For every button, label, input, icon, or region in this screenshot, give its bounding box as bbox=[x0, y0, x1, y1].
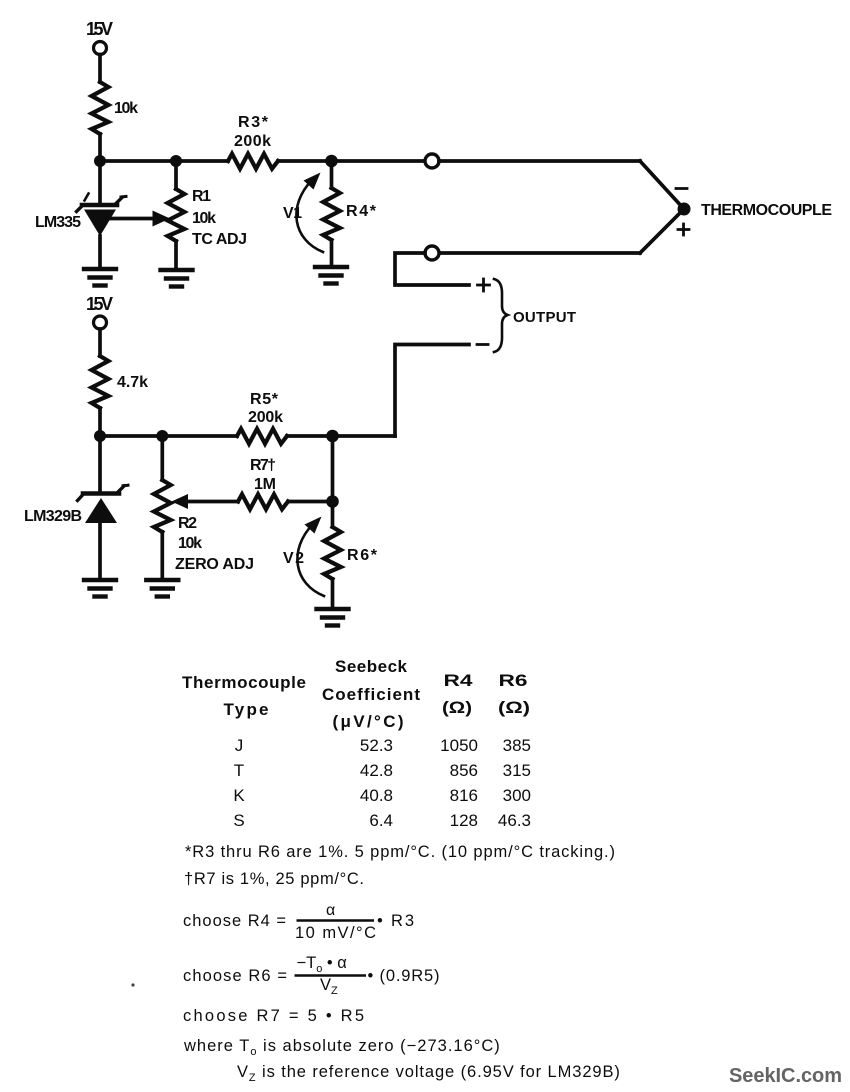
wire (top rail) bbox=[100, 159, 228, 163]
terminal (thermocouple plus lead) bbox=[425, 246, 439, 260]
resistor R4 bbox=[323, 161, 377, 265]
svg-text:10k: 10k bbox=[114, 100, 138, 117]
wire (node to R7 node) bbox=[331, 436, 335, 502]
svg-text:VZ is the reference voltage (6: VZ is the reference voltage (6.95V for L… bbox=[237, 1063, 621, 1084]
svg-text:R2: R2 bbox=[178, 515, 197, 532]
svg-text:Thermocouple: Thermocouple bbox=[182, 673, 306, 692]
svg-text:(Ω): (Ω) bbox=[498, 698, 530, 717]
svg-text:4.7k: 4.7k bbox=[117, 374, 148, 391]
ground (LM335) bbox=[84, 269, 116, 286]
wire (lower rail) bbox=[100, 434, 237, 438]
wire bbox=[439, 251, 640, 255]
svg-text:S: S bbox=[233, 811, 244, 830]
ground (R2) bbox=[146, 580, 178, 597]
output brace and label bbox=[494, 279, 576, 352]
svg-text:856: 856 bbox=[450, 761, 478, 780]
V1 annotation bbox=[283, 173, 323, 253]
svg-text:where To is absolute zero (−27: where To is absolute zero (−273.16°C) bbox=[183, 1037, 501, 1058]
stray mark bbox=[131, 983, 134, 986]
potentiometer R1 10k TC ADJ bbox=[168, 161, 247, 267]
wire bbox=[98, 329, 102, 356]
table row J bbox=[235, 736, 531, 755]
svg-text:200k: 200k bbox=[248, 409, 283, 426]
svg-text:†R7 is 1%, 25 ppm/°C.: †R7 is 1%, 25 ppm/°C. bbox=[184, 870, 364, 888]
ground (R1) bbox=[161, 270, 193, 287]
svg-text:Coefficient: Coefficient bbox=[322, 685, 420, 704]
svg-text:K: K bbox=[233, 786, 245, 805]
node (R1 top) bbox=[170, 155, 182, 167]
thermocouple junction bbox=[676, 189, 832, 236]
svg-text:(μV/°C): (μV/°C) bbox=[333, 712, 404, 731]
svg-text:46.3: 46.3 bbox=[498, 811, 531, 830]
svg-text:R7†: R7† bbox=[250, 457, 276, 474]
svg-text:15V: 15V bbox=[86, 294, 113, 314]
svg-text:42.8: 42.8 bbox=[360, 761, 393, 780]
table row S bbox=[233, 811, 531, 830]
svg-text:R5*: R5* bbox=[250, 391, 279, 408]
node (R5 / R6 junction) bbox=[326, 430, 339, 443]
svg-text:choose R4 =: choose R4 = bbox=[183, 912, 286, 930]
diode LM329B bbox=[24, 436, 128, 578]
svg-text:52.3: 52.3 bbox=[360, 736, 393, 755]
svg-text:V1: V1 bbox=[283, 205, 302, 222]
svg-text:THERMOCOUPLE: THERMOCOUPLE bbox=[701, 202, 832, 219]
ground (R4) bbox=[315, 267, 347, 284]
formula: choose R4 bbox=[183, 902, 414, 942]
svg-text:Seebeck: Seebeck bbox=[335, 657, 408, 676]
svg-text:*R3 thru R6 are 1%. 5 ppm/°C.: *R3 thru R6 are 1%. 5 ppm/°C. (10 ppm/°C… bbox=[185, 843, 615, 861]
svg-text:TC ADJ: TC ADJ bbox=[192, 231, 247, 248]
node (R2 top) bbox=[156, 430, 168, 442]
svg-text:α: α bbox=[326, 902, 335, 919]
node (4.7k / LM329B) bbox=[94, 430, 106, 442]
svg-text:1050: 1050 bbox=[440, 736, 478, 755]
label + (output) bbox=[478, 279, 490, 291]
svg-text:• R3: • R3 bbox=[377, 912, 414, 930]
svg-text:10k: 10k bbox=[192, 210, 216, 227]
svg-text:816: 816 bbox=[450, 786, 478, 805]
svg-text:Type: Type bbox=[224, 700, 269, 719]
wire bbox=[98, 408, 102, 436]
power terminal 15V (lower) bbox=[86, 294, 113, 329]
resistor 10k (top pull-up) bbox=[92, 82, 138, 134]
resistor R3 200k bbox=[228, 114, 278, 169]
wiper arrow (LM335 adj to R1) bbox=[104, 211, 170, 227]
wire bbox=[288, 500, 333, 504]
svg-text:choose R6 =: choose R6 = bbox=[183, 967, 287, 985]
svg-text:128: 128 bbox=[450, 811, 478, 830]
svg-text:V2: V2 bbox=[283, 550, 304, 567]
wire (output minus path) bbox=[395, 345, 469, 437]
svg-text:R4*: R4* bbox=[346, 203, 377, 220]
svg-text:10 mV/°C: 10 mV/°C bbox=[295, 924, 376, 942]
svg-text:385: 385 bbox=[503, 736, 531, 755]
svg-text:R6: R6 bbox=[499, 671, 528, 690]
svg-text:T: T bbox=[234, 761, 244, 780]
table: thermocouple types bbox=[182, 657, 531, 830]
wire (output plus path) bbox=[395, 253, 469, 285]
svg-text:40.8: 40.8 bbox=[360, 786, 393, 805]
svg-text:J: J bbox=[235, 736, 244, 755]
label minus (output) bbox=[477, 343, 488, 346]
svg-text:LM329B: LM329B bbox=[24, 508, 82, 525]
svg-text:OUTPUT: OUTPUT bbox=[513, 309, 576, 326]
wire (diagonal from thermocouple) bbox=[640, 209, 684, 253]
svg-text:6.4: 6.4 bbox=[369, 811, 393, 830]
svg-text:10k: 10k bbox=[178, 535, 202, 552]
svg-text:300: 300 bbox=[503, 786, 531, 805]
svg-text:200k: 200k bbox=[234, 133, 271, 150]
node (10k / LM335) bbox=[94, 155, 106, 167]
wire bbox=[98, 55, 102, 83]
wire bbox=[439, 159, 640, 163]
svg-text:R1: R1 bbox=[192, 188, 211, 205]
formula: choose R6 bbox=[183, 954, 440, 997]
resistor R7 1M bbox=[238, 457, 288, 509]
svg-text:R6*: R6* bbox=[347, 547, 378, 564]
resistor 4.7k bbox=[92, 356, 148, 408]
svg-text:• (0.9R5): • (0.9R5) bbox=[368, 967, 440, 985]
wire (diagonal to thermocouple) bbox=[640, 161, 684, 209]
potentiometer R2 10k ZERO ADJ bbox=[154, 436, 254, 578]
svg-text:−To • α: −To • α bbox=[297, 954, 348, 975]
table row K bbox=[233, 786, 531, 805]
diode LM335 bbox=[35, 161, 126, 267]
ground (R6) bbox=[317, 609, 349, 626]
svg-text:15V: 15V bbox=[86, 19, 113, 39]
terminal (thermocouple minus lead) bbox=[425, 154, 439, 168]
table row T bbox=[234, 761, 531, 780]
svg-text:choose R7 = 5 • R5: choose R7 = 5 • R5 bbox=[183, 1007, 364, 1025]
resistor R6 bbox=[324, 502, 378, 608]
node (R7 / R6) bbox=[326, 495, 339, 508]
wire bbox=[287, 434, 395, 438]
resistor R5 200k bbox=[237, 391, 287, 444]
power terminal 15V (top) bbox=[86, 19, 113, 55]
wiper arrow (R7 to R2) bbox=[172, 494, 239, 509]
svg-text:R4: R4 bbox=[444, 671, 474, 690]
wire bbox=[98, 134, 102, 161]
svg-text:ZERO ADJ: ZERO ADJ bbox=[175, 556, 254, 573]
svg-text:315: 315 bbox=[503, 761, 531, 780]
V2 annotation bbox=[283, 517, 324, 597]
wire bbox=[278, 159, 425, 163]
svg-text:SeekIC.com: SeekIC.com bbox=[729, 1065, 842, 1087]
svg-text:(Ω): (Ω) bbox=[442, 698, 472, 717]
ground (LM329B) bbox=[84, 580, 116, 597]
svg-text:1M: 1M bbox=[254, 476, 276, 493]
node (R3 / R4) bbox=[325, 155, 338, 168]
svg-text:R3*: R3* bbox=[238, 114, 269, 131]
svg-text:LM335: LM335 bbox=[35, 214, 81, 231]
